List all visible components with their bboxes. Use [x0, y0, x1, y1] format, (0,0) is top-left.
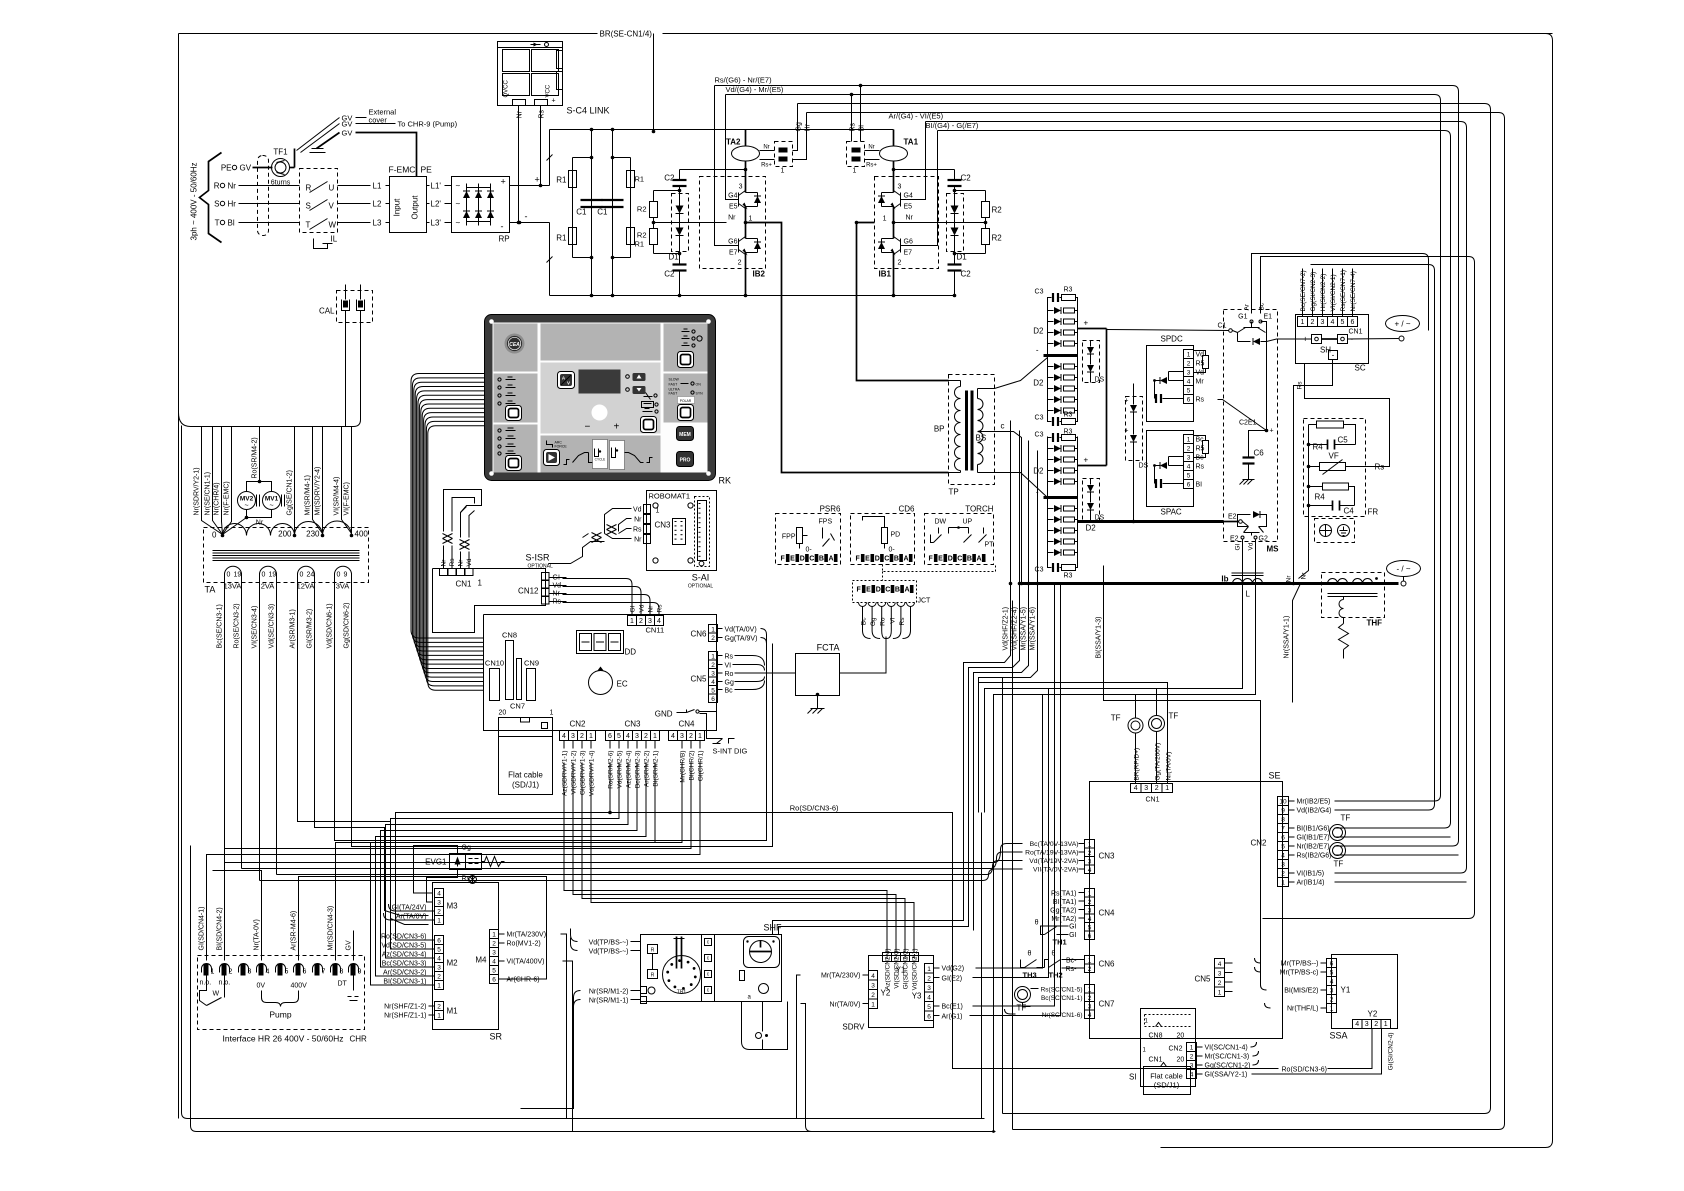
wire FR left rail: [1308, 425, 1310, 514]
svg-text:GI: GI: [630, 605, 637, 612]
svg-text:4: 4: [1355, 1021, 1359, 1028]
wire right bus BI/(G4)-GI/(E7) to SE CN2 pin7: [938, 131, 1451, 829]
svg-text:FAST: FAST: [669, 383, 679, 387]
svg-text:1: 1: [437, 983, 441, 990]
svg-text:Mr(SD/CN4-3): Mr(SD/CN4-3): [328, 906, 335, 951]
svg-text:Nr(SR/M1-1): Nr(SR/M1-1): [589, 998, 629, 1005]
wire TA sec to SD CN6 Vd: [335, 635, 767, 841]
svg-text:4: 4: [657, 618, 661, 625]
svg-text:Y2: Y2: [1368, 1010, 1378, 1019]
wire MV frame bottom Nr: [247, 510, 272, 518]
transformer TA secondary 2VA: [260, 566, 277, 605]
svg-text:TA2: TA2: [726, 138, 741, 147]
button start: [544, 450, 560, 466]
svg-text:2: 2: [1187, 361, 1191, 368]
svg-text:5: 5: [1281, 844, 1285, 851]
svg-text:Y1: Y1: [1341, 986, 1351, 995]
wire SE CN2 pin1 up right: [1335, 881, 1467, 883]
wire SPDC Rs to C2E1: [1218, 400, 1267, 431]
svg-text:Flat cable: Flat cable: [1150, 1072, 1183, 1081]
connector S-ISR CN12: [542, 573, 550, 581]
wire TA sec to SD CN6 Gg: [352, 644, 773, 847]
wire RP plus to DC link: [510, 185, 550, 187]
svg-text:3: 3: [1330, 988, 1334, 995]
svg-text:Output: Output: [411, 195, 420, 220]
wire SDRV Y2 Nr down: [801, 1004, 812, 1132]
svg-text:2: 2: [1088, 899, 1092, 906]
svg-text:Vd: Vd: [1248, 542, 1255, 550]
potentiometer PD: [863, 517, 885, 528]
icon hf arc force: [547, 441, 553, 448]
svg-text:5: 5: [285, 969, 289, 976]
svg-text:2: 2: [1088, 966, 1092, 973]
svg-text:Rs: Rs: [899, 617, 906, 626]
svg-text:TF: TF: [1111, 714, 1121, 723]
svg-text:E: E: [938, 556, 943, 563]
svg-text:+: +: [552, 98, 556, 105]
svg-text:BI(SSA/Y1-3): BI(SSA/Y1-3): [1096, 616, 1103, 658]
svg-text:9: 9: [358, 969, 362, 976]
svg-text:1: 1: [1384, 1021, 1388, 1028]
svg-text:Nr(TA/0V): Nr(TA/0V): [1166, 752, 1173, 781]
wire GV to external cover: [294, 149, 296, 168]
svg-text:M1: M1: [447, 1007, 459, 1016]
svg-text:4: 4: [1088, 1012, 1092, 1019]
svg-text:R1: R1: [635, 175, 645, 184]
svg-text:Ar(CHR-6): Ar(CHR-6): [507, 977, 540, 984]
svg-text:DD: DD: [625, 648, 637, 657]
svg-text:Vd(SDRV/Y1-4): Vd(SDRV/Y1-4): [589, 751, 596, 797]
rectifier stack D2 upper: [1047, 307, 1049, 419]
svg-text:Ar(SR-M4-6): Ar(SR-M4-6): [291, 911, 298, 951]
svg-text:2: 2: [1311, 319, 1315, 326]
svg-text:0: 0: [337, 572, 341, 579]
wire CAL left plug down: [345, 311, 347, 427]
diode freewheel bottom IB2: [746, 238, 758, 240]
svg-text:G1: G1: [1238, 314, 1247, 321]
svg-text:Nr: Nr: [256, 520, 264, 527]
wire TA1 to bus Rs: [851, 95, 853, 142]
potentiometer EC: [589, 671, 613, 695]
svg-text:E7: E7: [904, 250, 913, 257]
connector SR M3: [435, 889, 444, 898]
svg-text:CN3: CN3: [624, 720, 641, 729]
svg-text:C3: C3: [1035, 567, 1044, 574]
svg-text:Rs: Rs: [657, 604, 664, 613]
switch IL dashed box: [300, 169, 338, 233]
svg-text:4: 4: [1088, 916, 1092, 923]
svg-text:3: 3: [648, 618, 652, 625]
connector SI CN2: [1187, 1043, 1197, 1052]
svg-text:1: 1: [1281, 880, 1285, 887]
knob encoder: [592, 405, 608, 421]
svg-text:C: C: [809, 556, 814, 563]
svg-text:6: 6: [1281, 835, 1285, 842]
resistor R4 bottom: [1309, 486, 1323, 488]
wire TA2 to bus Hr: [793, 113, 807, 160]
svg-text:Vd(SHF/Z2-1): Vd(SHF/Z2-1): [1003, 607, 1010, 651]
svg-text:Vd(SD/CN2-1): Vd(SD/CN2-1): [912, 949, 919, 991]
svg-text:A: A: [829, 556, 834, 563]
svg-text:3: 3: [680, 733, 684, 740]
wire stack1 plus output: [1078, 328, 1107, 330]
svg-text:Gg(TA/200V): Gg(TA/200V): [1155, 743, 1162, 781]
svg-text:3: 3: [927, 985, 931, 992]
svg-text:IB2: IB2: [753, 270, 766, 279]
svg-text:~: ~: [456, 182, 461, 191]
svg-text:R: R: [651, 973, 655, 979]
svg-text:FCTA: FCTA: [817, 643, 840, 653]
svg-text:Bc(SD/CN3-3): Bc(SD/CN3-3): [382, 961, 427, 968]
svg-text:Nr(SE/CN1-1): Nr(SE/CN1-1): [205, 472, 212, 516]
wire SE CN2 pin4 up right: [1335, 854, 1459, 856]
svg-text:QVCC: QVCC: [504, 79, 510, 97]
pcb SDRV box: [869, 956, 934, 1028]
module MS dashed box: [1224, 310, 1278, 542]
wire Nr(CHR/4): [222, 427, 223, 535]
svg-text:2: 2: [580, 733, 584, 740]
svg-text:400V: 400V: [291, 983, 308, 990]
rotary switch SHF: [744, 937, 780, 968]
svg-text:Ar(IB1/4): Ar(IB1/4): [1297, 880, 1325, 887]
svg-text:2: 2: [1187, 446, 1191, 453]
wire SD CN3 pin6 Ro to SSA: [610, 763, 1279, 1069]
svg-text:1: 1: [781, 168, 785, 175]
resistor THF damping: [1343, 618, 1345, 624]
svg-text:D: D: [876, 587, 881, 594]
svg-text:CAL: CAL: [319, 307, 335, 316]
svg-text:0: 0: [300, 572, 304, 579]
transformer TA core: [213, 550, 360, 552]
svg-text:6: 6: [303, 969, 307, 976]
wire CN5 Rs to FCTA: [718, 655, 723, 657]
svg-text:Rs(IB2/G6): Rs(IB2/G6): [1297, 853, 1332, 860]
wire SDRV Y3 Bc(E1) up: [973, 584, 1055, 1007]
logo CEA: [505, 334, 525, 354]
svg-text:230: 230: [306, 530, 320, 539]
svg-text:Bc: Bc: [725, 688, 734, 695]
svg-text:IB1: IB1: [879, 270, 892, 279]
wire stack plus to C1: [1107, 330, 1229, 331]
svg-text:SPDC: SPDC: [1161, 335, 1183, 344]
svg-text:FR: FR: [1368, 508, 1379, 517]
svg-text:E2: E2: [1228, 514, 1237, 521]
svg-text:24: 24: [307, 572, 315, 579]
svg-text:L: L: [1246, 590, 1251, 599]
button enter: [641, 417, 657, 433]
wire TA sec to SE CN3 Bc: [224, 649, 226, 863]
wire mid verticals down: [981, 813, 983, 1119]
svg-text:θ: θ: [1028, 951, 1032, 958]
svg-text:4: 4: [266, 969, 270, 976]
svg-text:4: 4: [1187, 464, 1191, 471]
ground symbols dashed box: [1315, 519, 1355, 543]
svg-text:1: 1: [492, 932, 496, 939]
svg-text:R: R: [306, 184, 312, 193]
svg-text:Vd(SD/CN3-5): Vd(SD/CN3-5): [381, 943, 426, 950]
svg-text:E5: E5: [729, 204, 738, 211]
transistor IGBT bottom IB1 G6/E7: [900, 239, 902, 253]
wire MS gate lead Vd to SDRV: [1043, 540, 1256, 695]
svg-text:CN10: CN10: [485, 659, 504, 668]
wire Nr(SR/M1-2): [631, 990, 641, 992]
transformer TF CN7: [1015, 987, 1031, 1003]
svg-text:Vd(IB2/G4): Vd(IB2/G4): [1297, 808, 1332, 815]
wire S-ISR CN1 pair B twisted: [460, 552, 462, 569]
thyristor module DS upper: [1083, 341, 1100, 383]
transformer TA primary: [223, 524, 295, 536]
wire SD CN3 pin6 to SR M2-6: [396, 813, 611, 941]
svg-text:Vd(SE/CN3-3): Vd(SE/CN3-3): [269, 604, 276, 649]
svg-text:BI(SR/M2-1): BI(SR/M2-1): [653, 751, 660, 787]
waveform cycle diagram: [564, 460, 570, 465]
svg-text:-: -: [1036, 346, 1039, 355]
svg-text:20: 20: [1177, 1057, 1185, 1064]
wire SD CN3 to SR M2 Vd: [391, 763, 620, 950]
wire bottom bus outer: [182, 426, 985, 1119]
selector column SHF: [701, 935, 703, 1002]
svg-text:R5: R5: [1196, 361, 1205, 368]
transformer TP dashed box: [949, 375, 995, 485]
wire stack outputs join: [1106, 329, 1108, 466]
svg-text:3: 3: [898, 184, 902, 191]
svg-text:2: 2: [229, 969, 233, 976]
resistor R1 top-left: [572, 158, 574, 258]
connector SD CN11: [628, 616, 637, 626]
resistor R1 bottom-right: [627, 228, 635, 245]
svg-text:CYCLE: CYCLE: [595, 458, 606, 462]
svg-text:C: C: [884, 556, 889, 563]
wire CN2 pin9 Vd(IB2/G4): [1289, 809, 1295, 811]
svg-text:Nr(TA-0V): Nr(TA-0V): [254, 919, 261, 950]
svg-text:3ph ~ 400V - 50/60Hz: 3ph ~ 400V - 50/60Hz: [190, 162, 199, 240]
svg-text:2: 2: [1088, 995, 1092, 1002]
wire SD CN2 to SDRV Y1 Vd: [591, 763, 914, 953]
svg-text:-: -: [525, 212, 528, 222]
capacitor C2 top-left: [679, 170, 681, 180]
svg-text:Nr: Nr: [1286, 575, 1293, 583]
wire FR rail down Nr: [1299, 506, 1309, 579]
svg-text:5: 5: [437, 947, 441, 954]
svg-text:5: 5: [1088, 925, 1092, 932]
svg-text:ON: ON: [696, 383, 702, 387]
wire Nr(SR/M1-1): [631, 999, 641, 1001]
wire gate G4 IB1: [913, 122, 926, 200]
wire SSA Y2 pin1 GI(SI/CN2-4): [1295, 1029, 1382, 1075]
svg-text:Nr: Nr: [517, 110, 524, 118]
wire Mr(SR/M4-1): [313, 427, 323, 534]
svg-text:Mr: Mr: [1196, 379, 1205, 386]
connector SSA Y2: [1353, 1020, 1363, 1029]
wire TA sec to SR M3 Ar: [298, 649, 429, 925]
wire M4 Ar(CHR-6): [499, 978, 505, 980]
wire Mr(SSA/Y1-6): [979, 451, 1038, 813]
svg-text:E7: E7: [729, 250, 738, 257]
panel block top banner: [541, 324, 661, 361]
shunt SH: [1312, 335, 1322, 344]
svg-text:3: 3: [1088, 1004, 1092, 1011]
svg-text:Vd/(G4) - Mr/(E5): Vd/(G4) - Mr/(E5): [726, 85, 784, 94]
wire SC area to SE CN2 pin9: [1311, 265, 1435, 811]
svg-text:Mr(SSA/Y1-5): Mr(SSA/Y1-5): [1021, 607, 1028, 651]
svg-text:GI(TA/24V): GI(TA/24V): [392, 905, 427, 912]
pcb S-ISR outline: [433, 569, 546, 633]
svg-text:D: D: [948, 556, 953, 563]
wire Y2 Mr(TA/230V): [863, 974, 869, 976]
wire Y1 Mr(TP/BS-c): [1321, 971, 1327, 973]
wire DC link minus rail: [549, 223, 551, 296]
wire Vd(TP/BS-a): [631, 941, 641, 943]
svg-text:TA1: TA1: [904, 138, 919, 147]
wire right bus Ar/(G4)-VI/(E5) to SE CN2 pin2: [926, 122, 1467, 874]
wire L1' L2' L3': [427, 185, 430, 187]
pcb SR box: [433, 883, 499, 1030]
svg-text:BI(TA1): BI(TA1): [1053, 899, 1077, 906]
svg-text:0-: 0-: [806, 547, 813, 554]
svg-text:SLOW: SLOW: [669, 378, 680, 382]
svg-text:1: 1: [1218, 990, 1222, 997]
wire TA sec Bc(SE/CN3-1): [224, 606, 226, 649]
wire RP minus to DC link: [510, 222, 550, 224]
svg-text:VI(SDRV/Y1-2): VI(SDRV/Y1-2): [571, 751, 578, 795]
svg-text:2: 2: [711, 662, 715, 669]
svg-text:FAST: FAST: [669, 392, 679, 396]
svg-text:3: 3: [1088, 908, 1092, 915]
wire S-C4 Rs to plus: [540, 106, 542, 186]
wire bus down through TA2: [745, 130, 747, 147]
capacitor C1 a: [591, 130, 593, 296]
switch PT: [983, 528, 985, 534]
svg-text:G4: G4: [904, 193, 913, 200]
svg-text:20: 20: [499, 710, 507, 717]
svg-text:(SD/J1): (SD/J1): [1154, 1081, 1180, 1090]
svg-text:2: 2: [1374, 1021, 1378, 1028]
pcb SC box: [1296, 315, 1369, 364]
wire SR M4 VI(TA/400V) down: [563, 961, 573, 1132]
svg-text:Vd: Vd: [639, 604, 646, 612]
svg-text:1: 1: [630, 618, 634, 625]
svg-text:R1: R1: [556, 176, 567, 185]
connector S-AI edge: [695, 497, 710, 567]
svg-text:GI(SD/CN4-1): GI(SD/CN4-1): [199, 907, 206, 951]
resistor R2 top-left: [654, 190, 680, 192]
resistor R2 bottom-left: [650, 229, 658, 245]
wire outer border right down to bottom: [1161, 34, 1553, 1148]
wire Vd(TP/BS-b): [631, 950, 641, 952]
wire BS bottom end to stack2: [978, 473, 1048, 498]
svg-text:GI(IB1/E7): GI(IB1/E7): [1297, 835, 1330, 842]
svg-text:Ro: Ro: [725, 671, 734, 678]
svg-text:R5: R5: [1196, 446, 1205, 453]
wire SD CN4 to CHR pins: [336, 763, 683, 961]
svg-text:Rs(SE/CN7-1): Rs(SE/CN7-1): [1340, 270, 1347, 312]
svg-text:F-EMC: F-EMC: [389, 165, 416, 175]
svg-text:1: 1: [1190, 1045, 1194, 1052]
module IB1 dashed box: [875, 177, 939, 269]
svg-text:2: 2: [639, 618, 643, 625]
svg-text:D2: D2: [1033, 327, 1044, 336]
svg-text:2: 2: [898, 260, 902, 267]
svg-text:4: 4: [927, 995, 931, 1002]
svg-text:5: 5: [1187, 473, 1191, 480]
svg-text:R3: R3: [1064, 412, 1073, 419]
node 1 IB2 Nr: [745, 207, 747, 239]
svg-text:MV2: MV2: [240, 496, 254, 503]
svg-text:C2: C2: [961, 270, 972, 279]
switch S-INT DIG: [700, 714, 723, 739]
label SC CN1 wires: [1302, 269, 1304, 317]
svg-text:1: 1: [437, 918, 441, 925]
wire gate G6 IB1: [913, 131, 938, 246]
svg-text:MV1: MV1: [265, 496, 279, 503]
terminal minus output: [1401, 581, 1406, 586]
svg-text:L3': L3': [431, 219, 442, 228]
svg-text:Rs/(G6) - Nr/(E7): Rs/(G6) - Nr/(E7): [715, 76, 773, 85]
svg-text:7: 7: [1281, 826, 1285, 833]
ic ROBOMAT1 dip: [673, 519, 686, 545]
pcb S-C4 LINK: [498, 42, 563, 106]
svg-text:CN7: CN7: [510, 702, 525, 711]
capacitor C2 bottom-right: [948, 263, 962, 265]
svg-text:S-ISR: S-ISR: [526, 553, 551, 563]
wire M3 Ar(TA/0V): [391, 919, 435, 921]
transistor IGBT bottom IB2 G6/E7: [738, 239, 740, 253]
wire CHR Ar(SR-M4-6): [299, 877, 547, 980]
svg-text:M2: M2: [447, 959, 459, 968]
wire VI(F-EMC): [351, 427, 353, 534]
svg-text:1: 1: [1088, 842, 1092, 849]
connector SE CN2: [1278, 797, 1289, 806]
svg-text:M3: M3: [447, 902, 459, 911]
svg-text:R1: R1: [635, 240, 645, 249]
wire SD CN3 to SR M2 Bc: [381, 763, 638, 968]
svg-text:Az(SR/M2-4): Az(SR/M2-4): [626, 751, 633, 789]
svg-text:E: E: [865, 556, 870, 563]
svg-text:RK: RK: [719, 476, 732, 486]
wire SD CN3 to SR M2 BI: [371, 763, 656, 986]
svg-text:θ: θ: [1035, 920, 1039, 927]
svg-text:D: D: [875, 556, 880, 563]
svg-text:FORCE: FORCE: [555, 445, 568, 449]
wire SR M4 Mr(TA/230V) down: [561, 934, 567, 1119]
ground FCTA: [817, 696, 819, 704]
svg-text:3: 3: [437, 900, 441, 907]
svg-text:BI/(G4) - G(/E7): BI/(G4) - G(/E7): [926, 121, 979, 130]
pin 2 IB1: [893, 253, 895, 296]
svg-text:DW: DW: [935, 519, 947, 526]
cycle white card: [593, 440, 608, 469]
svg-text:D: D: [800, 556, 805, 563]
wire right bridge mid to TP: [857, 222, 875, 224]
svg-text:Ar(SR/M2-2): Ar(SR/M2-2): [644, 751, 651, 787]
panel RK inner field: [493, 323, 708, 473]
svg-text:Nr(SR/M1-2): Nr(SR/M1-2): [589, 989, 629, 996]
icon gas torch: [644, 396, 653, 398]
wire CN3 leads: [1079, 843, 1085, 845]
svg-text:L2: L2: [373, 200, 382, 209]
svg-text:GI: GI: [1069, 932, 1076, 939]
wire Y3 Bc(E1): [934, 1005, 940, 1007]
svg-text:Input: Input: [393, 198, 402, 217]
svg-text:Mr(TP/BS-c): Mr(TP/BS-c): [1280, 970, 1319, 977]
wire Y1 Nr(THF/L): [1321, 1007, 1327, 1009]
svg-text:F: F: [929, 556, 934, 563]
svg-text:E1: E1: [1264, 314, 1273, 321]
svg-text:+: +: [1084, 456, 1089, 465]
svg-text:R1: R1: [556, 234, 567, 243]
wire SC Rs to VF: [1304, 364, 1306, 373]
svg-text:Mr(SSA/Y1-6): Mr(SSA/Y1-6): [1030, 607, 1037, 651]
